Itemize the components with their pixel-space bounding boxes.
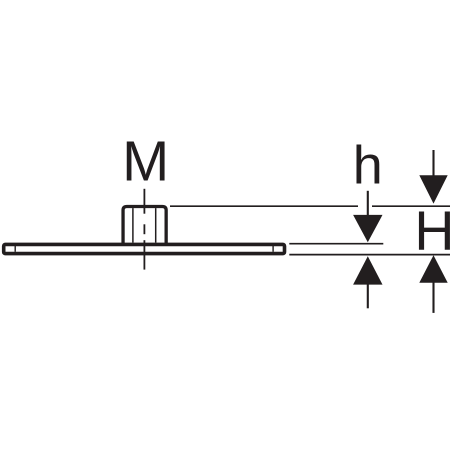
svg-text:H: H [414, 200, 450, 262]
dimension h leader line [367, 191, 369, 216]
nut (hex nut side view) [123, 207, 166, 246]
dimension h down arrow [353, 215, 382, 242]
extension line plate top [289, 243, 383, 245]
dimension H up arrow [419, 255, 447, 313]
plate right edge line [272, 246, 274, 252]
plate (side view outline) [4, 244, 285, 253]
label h (plate thickness) [353, 135, 383, 195]
nut facet line left [132, 208, 134, 243]
dimension h up arrow [353, 256, 382, 308]
label H (total height) [414, 200, 450, 262]
nut centerline [143, 189, 145, 270]
dimension H down arrow [419, 150, 447, 204]
extension line nut top [170, 205, 450, 207]
svg-text:M: M [122, 129, 169, 192]
svg-text:h: h [353, 135, 383, 195]
nut facet line right [155, 208, 157, 243]
plate left edge line [14, 246, 16, 252]
extension line plate bottom [289, 254, 450, 256]
label M (thread size) [122, 129, 169, 192]
